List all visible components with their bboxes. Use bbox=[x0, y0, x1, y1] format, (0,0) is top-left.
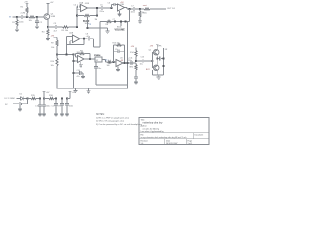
ground C15 bbox=[38, 113, 42, 117]
wire volume link bbox=[94, 46, 101, 48]
svg-text:100n: 100n bbox=[19, 22, 24, 24]
ground below U1B bbox=[118, 11, 122, 16]
wire U2A out drop bbox=[93, 39, 95, 47]
capacitor C18 bbox=[58, 99, 64, 113]
wire input riser bbox=[76, 6, 78, 27]
net label OUT jack bbox=[167, 8, 176, 10]
wire bias stub bbox=[51, 35, 58, 37]
wire U3 inv bbox=[76, 54, 78, 58]
junction U2A fb bbox=[83, 38, 85, 40]
svg-text:4558: 4558 bbox=[85, 3, 89, 5]
resistor R9 bbox=[51, 37, 58, 54]
junction pwr a bbox=[26, 97, 28, 99]
net label sig blue bbox=[89, 23, 92, 25]
junction pwr f bbox=[66, 97, 68, 99]
wire volume left drop bbox=[95, 19, 101, 47]
svg-text:NOTES:: NOTES: bbox=[96, 114, 105, 116]
potentiometer VOLUME bbox=[106, 20, 122, 25]
junction mid c bbox=[72, 53, 74, 55]
wire U3 noninv bbox=[74, 60, 78, 62]
junction feedback node bbox=[76, 14, 78, 16]
wire output drop bbox=[96, 8, 98, 16]
svg-text:C7: C7 bbox=[131, 5, 134, 7]
ground below R4 bbox=[46, 37, 50, 41]
svg-text:R5 10k: R5 10k bbox=[62, 30, 70, 32]
ground C16 bbox=[42, 113, 46, 117]
svg-text:10k: 10k bbox=[51, 47, 54, 49]
feedback R13 bbox=[113, 43, 125, 47]
wire to Q1 base bbox=[37, 16, 44, 18]
junction pwr c bbox=[43, 97, 45, 99]
wire Q2 collector bbox=[156, 45, 159, 50]
svg-text:in my schematics dock makesho: in my schematics dock makeshop ultra tin… bbox=[141, 136, 187, 139]
svg-text:makeshop ultra tiny: makeshop ultra tiny bbox=[143, 121, 164, 124]
svg-text:3) Can be powered by a DC six: 3) Can be powered by a DC six volt headp… bbox=[96, 123, 143, 126]
junction U1A input node bbox=[76, 26, 78, 28]
ground below U3 bbox=[79, 62, 83, 67]
svg-text:C4: C4 bbox=[74, 4, 77, 6]
op-amp U1B bbox=[118, 2, 125, 11]
ground below U4 bbox=[116, 67, 120, 72]
junction v3 bbox=[124, 20, 126, 22]
junction bases bbox=[151, 60, 153, 62]
svg-text:Page: Page bbox=[188, 141, 192, 143]
capacitor C1 series bbox=[17, 15, 27, 24]
feedback R11 bbox=[76, 50, 91, 54]
svg-text:C10: C10 bbox=[77, 70, 80, 72]
wire driver feed bbox=[136, 60, 142, 62]
resistor R5 series bbox=[62, 26, 70, 32]
svg-text:1.0: 1.0 bbox=[141, 143, 144, 145]
svg-text:C17: C17 bbox=[52, 105, 57, 107]
label speaker net bbox=[158, 45, 168, 51]
wire wiper drop bbox=[87, 20, 89, 28]
net label IN jack bbox=[9, 17, 17, 19]
wire U2A inv bbox=[67, 36, 73, 38]
label VOLUME bbox=[115, 26, 126, 31]
junction U1A out bbox=[96, 7, 98, 9]
resistor R15b lower bbox=[130, 63, 138, 77]
svg-text:R2: R2 bbox=[21, 7, 25, 9]
power +9V at R2 bbox=[24, 2, 28, 6]
wire U1A output bbox=[88, 7, 102, 9]
node bias bbox=[26, 16, 28, 18]
resistor R10 bbox=[51, 55, 59, 89]
capacitor C14 series bbox=[159, 57, 163, 61]
wire return upper bbox=[96, 84, 128, 86]
ground B1 bbox=[18, 106, 22, 112]
svg-text:C7: C7 bbox=[113, 19, 115, 21]
svg-text:47u: 47u bbox=[77, 76, 80, 78]
junction U4 in bbox=[112, 61, 114, 63]
transistor Q3 bbox=[146, 65, 159, 71]
net label spk blue bbox=[105, 59, 110, 61]
wire stage2 a bbox=[48, 26, 55, 28]
svg-text:4u7: 4u7 bbox=[54, 31, 58, 33]
junction U1B out bbox=[128, 8, 130, 10]
wire emitter join bbox=[156, 55, 158, 65]
svg-text:BC2: BC2 bbox=[146, 69, 150, 71]
resistor R4 emitter bbox=[42, 27, 49, 37]
svg-text:R11: R11 bbox=[80, 50, 83, 52]
svg-text:10k: 10k bbox=[29, 20, 33, 22]
wire U4 out bbox=[123, 62, 136, 64]
svg-text:R9: R9 bbox=[51, 43, 54, 45]
ground bias bbox=[134, 81, 138, 85]
svg-text:OUT 1/4: OUT 1/4 bbox=[167, 8, 176, 10]
junction wiper bbox=[86, 27, 88, 29]
capacitor C7 series bbox=[131, 5, 140, 13]
op-amp U3 bbox=[77, 52, 85, 62]
svg-text:8R: 8R bbox=[165, 49, 168, 51]
label R1 bbox=[12, 22, 15, 24]
wire Q3 base bbox=[152, 61, 155, 68]
svg-text:2) SN is OK any gauges also: 2) SN is OK any gauges also bbox=[96, 121, 125, 123]
bypass cap C10 bbox=[72, 70, 83, 78]
resistor R1 pulldown bbox=[16, 17, 18, 28]
wire U4 input bbox=[106, 61, 108, 63]
svg-text:circuits for liberty: circuits for liberty bbox=[143, 127, 160, 130]
ground below C10 bbox=[81, 75, 85, 79]
svg-text:47u: 47u bbox=[58, 105, 61, 107]
junction pwr e bbox=[61, 97, 63, 99]
svg-text:IN: IN bbox=[9, 17, 12, 19]
op-amp U4 bbox=[116, 58, 124, 67]
svg-text:220u: 220u bbox=[128, 60, 132, 62]
wire box out bbox=[102, 60, 106, 63]
svg-text:+9V: +9V bbox=[120, 60, 124, 62]
resistor R16 series bbox=[44, 95, 56, 100]
svg-text:R10: R10 bbox=[51, 61, 56, 63]
svg-text:Date: Date bbox=[166, 140, 170, 143]
junction U4 fb bbox=[123, 62, 125, 64]
svg-text:sig: sig bbox=[89, 23, 92, 25]
svg-text:10u: 10u bbox=[98, 68, 101, 70]
wire fb right leg U4 bbox=[124, 45, 126, 63]
wire stage2 b bbox=[69, 26, 78, 28]
svg-text:R13 15k: R13 15k bbox=[113, 43, 120, 45]
net label DC jack bbox=[5, 98, 21, 100]
feedback loop U2A bbox=[67, 39, 85, 45]
resistor R15 series bbox=[28, 95, 41, 100]
svg-text:10k: 10k bbox=[51, 65, 54, 67]
junction spk a bbox=[162, 57, 164, 59]
wire speaker vertical bbox=[163, 48, 165, 75]
capacitor C11 series bbox=[128, 58, 132, 65]
wire stub gnd mid bbox=[107, 28, 109, 30]
svg-text:C13: C13 bbox=[141, 57, 146, 59]
svg-text:1) R5 is a PNP on graph pots a: 1) R5 is a PNP on graph pots also bbox=[96, 116, 130, 119]
wire mid rail bbox=[57, 54, 74, 56]
svg-text:R8: R8 bbox=[106, 24, 109, 26]
svg-text:Author: Author bbox=[141, 125, 147, 128]
feedback C9 bbox=[114, 49, 125, 53]
power +9V at Q1 bbox=[47, 2, 54, 5]
junction v2 bbox=[120, 20, 122, 22]
svg-text:100n: 100n bbox=[69, 105, 73, 107]
svg-text:Document: Document bbox=[195, 133, 204, 136]
wire volume rail bbox=[100, 21, 130, 23]
wire U2A left riser bbox=[66, 37, 68, 55]
ground mid rail bbox=[106, 30, 110, 34]
svg-text:Revision: Revision bbox=[141, 141, 148, 143]
transistor Q2 bbox=[149, 46, 160, 55]
wire feedback right bbox=[90, 15, 97, 17]
junction emitter node out bbox=[156, 57, 158, 59]
junction mid b bbox=[65, 53, 67, 55]
svg-text:9V: 9V bbox=[5, 104, 8, 106]
capacitor C2 shunt bbox=[35, 17, 39, 25]
wire fb right leg bbox=[89, 54, 91, 60]
capacitor C15 bbox=[35, 99, 42, 113]
svg-text:R14: R14 bbox=[130, 52, 135, 54]
ground below C2 bbox=[35, 22, 43, 29]
capacitor C12 bottom bbox=[134, 77, 138, 81]
svg-text:U1A: U1A bbox=[79, 1, 84, 4]
capacitor C16 bbox=[42, 99, 50, 113]
cap column below box bbox=[94, 62, 101, 85]
wire U2A out bbox=[80, 38, 88, 40]
wire volume riser bbox=[129, 9, 131, 22]
svg-text:R1: R1 bbox=[12, 22, 15, 24]
connector SPKR box bbox=[95, 57, 102, 62]
transistor Q1 bbox=[44, 13, 56, 19]
junction emitter node bbox=[47, 26, 49, 28]
wire feedback left bbox=[77, 15, 84, 17]
notes text bbox=[96, 114, 143, 126]
svg-text:100u: 100u bbox=[46, 106, 50, 108]
battery B1 bbox=[5, 99, 28, 106]
svg-text:2.2M: 2.2M bbox=[21, 13, 26, 15]
capacitor C13 series bbox=[140, 57, 153, 66]
svg-text:10u: 10u bbox=[140, 63, 143, 65]
wire Q1 collector bbox=[47, 3, 49, 14]
svg-text:5088: 5088 bbox=[51, 16, 56, 18]
resistor R12 series bbox=[107, 61, 117, 67]
junction out node bbox=[139, 8, 141, 10]
svg-text:10k: 10k bbox=[107, 65, 110, 67]
junction out rail bbox=[126, 62, 128, 64]
svg-text:R15: R15 bbox=[31, 95, 36, 97]
svg-text:C3: C3 bbox=[54, 23, 58, 25]
junction output feedback bbox=[96, 14, 98, 16]
wire bottom right loop bbox=[152, 70, 163, 75]
svg-text:1k: 1k bbox=[142, 12, 144, 14]
svg-text:1M: 1M bbox=[95, 19, 98, 21]
wire volume right drop bbox=[127, 22, 129, 89]
diode D1 bbox=[20, 94, 28, 101]
potentiometer BUZZ bbox=[83, 14, 90, 25]
resistor R6 shunt bbox=[139, 9, 147, 20]
svg-text:C6: C6 bbox=[108, 3, 111, 5]
junction spk b bbox=[162, 65, 164, 67]
junction mid a bbox=[56, 53, 58, 55]
resistor R7 series bbox=[140, 4, 150, 14]
net +9V bias bbox=[131, 46, 135, 48]
resistor R3 series bbox=[27, 16, 37, 22]
wire lower rail bbox=[88, 27, 108, 29]
junction U3 out bbox=[89, 58, 91, 60]
capacitor C6 series bbox=[108, 3, 118, 7]
svg-text:100n: 100n bbox=[131, 12, 135, 14]
capacitor C4 series bbox=[74, 4, 81, 8]
ground on return bbox=[74, 88, 78, 93]
ground C18 bbox=[60, 113, 64, 117]
svg-text:+9V: +9V bbox=[150, 46, 154, 48]
wire rail end up bbox=[67, 91, 77, 98]
resistor R2 bias bbox=[21, 5, 29, 17]
svg-text:+9V: +9V bbox=[131, 46, 135, 48]
op-amp U1A bbox=[79, 1, 89, 11]
wire Q1 emitter bbox=[47, 19, 49, 27]
svg-text:+10u: +10u bbox=[86, 36, 91, 38]
capacitor C20 bbox=[65, 99, 73, 113]
power +9V tap bbox=[43, 91, 50, 98]
svg-text:Q2: Q2 bbox=[149, 50, 152, 52]
ground mid return bbox=[87, 88, 91, 93]
wire to speaker net bbox=[157, 58, 159, 60]
capacitor C8 series bbox=[86, 33, 94, 40]
svg-text:PWR4: PWR4 bbox=[94, 54, 101, 57]
junction v1 bbox=[113, 19, 117, 22]
svg-text:220n: 220n bbox=[100, 11, 104, 13]
ground driver bbox=[157, 75, 161, 79]
svg-text:R16: R16 bbox=[49, 95, 54, 97]
svg-text:+9V: +9V bbox=[46, 92, 50, 94]
svg-text:VOLUME: VOLUME bbox=[115, 29, 126, 32]
wire noninv input bbox=[77, 9, 81, 11]
ground below R6 bbox=[138, 20, 142, 24]
label PWR bold bbox=[94, 54, 101, 57]
svg-text:DC 2.1MM: DC 2.1MM bbox=[5, 98, 15, 100]
svg-text:I am when it hyphenated by: I am when it hyphenated by bbox=[141, 130, 164, 133]
op-amp U2A bbox=[69, 32, 80, 43]
svg-text:D1: D1 bbox=[20, 94, 24, 96]
title block bbox=[139, 118, 209, 146]
svg-text:+9V: +9V bbox=[24, 2, 28, 4]
svg-text:File: File bbox=[141, 134, 144, 136]
wire U3 out bbox=[84, 58, 95, 60]
wire bottom return bbox=[57, 87, 128, 89]
resistor R14 upper bbox=[130, 48, 137, 62]
junction pwr d bbox=[55, 97, 57, 99]
node base bbox=[36, 16, 38, 18]
svg-text:U2A: U2A bbox=[69, 32, 74, 35]
wire to OUT bbox=[150, 8, 166, 10]
junction pwr b bbox=[39, 97, 41, 99]
ground below R1 bbox=[15, 28, 19, 32]
svg-text:1 of 1: 1 of 1 bbox=[188, 143, 193, 145]
wire U4 inv riser bbox=[113, 45, 115, 62]
svg-text:Q1: Q1 bbox=[51, 13, 55, 15]
svg-text:R4: R4 bbox=[42, 32, 46, 34]
wire Q2 base bbox=[152, 52, 155, 61]
ground C17 bbox=[54, 113, 58, 117]
svg-text:C9: C9 bbox=[115, 49, 117, 51]
capacitor C17 bbox=[52, 99, 58, 113]
junction U1B feed bbox=[110, 7, 112, 9]
wire U2A noninv bbox=[70, 41, 73, 45]
svg-text:SPK: SPK bbox=[158, 45, 163, 47]
svg-text:C2: C2 bbox=[39, 22, 43, 24]
svg-text:U1B: U1B bbox=[120, 4, 125, 6]
wire U1B output bbox=[125, 8, 134, 10]
svg-text:26 NOV 2007: 26 NOV 2007 bbox=[166, 143, 177, 145]
svg-text:Title: Title bbox=[141, 118, 146, 121]
capacitor C3 series bbox=[54, 23, 63, 32]
wire U1B riser bbox=[111, 5, 113, 9]
wire vref drop bbox=[73, 55, 75, 89]
junction bias node bbox=[135, 60, 137, 62]
junction U3 plus bbox=[72, 60, 74, 62]
junction input node bbox=[16, 16, 18, 18]
capacitor C5 series bbox=[100, 5, 112, 13]
svg-text:8R2: 8R2 bbox=[130, 66, 135, 68]
svg-text:+9Va: +9Va bbox=[72, 92, 77, 94]
ground C20 bbox=[65, 113, 69, 117]
svg-text:+9V: +9V bbox=[50, 2, 54, 4]
svg-text:+out: +out bbox=[143, 4, 147, 7]
